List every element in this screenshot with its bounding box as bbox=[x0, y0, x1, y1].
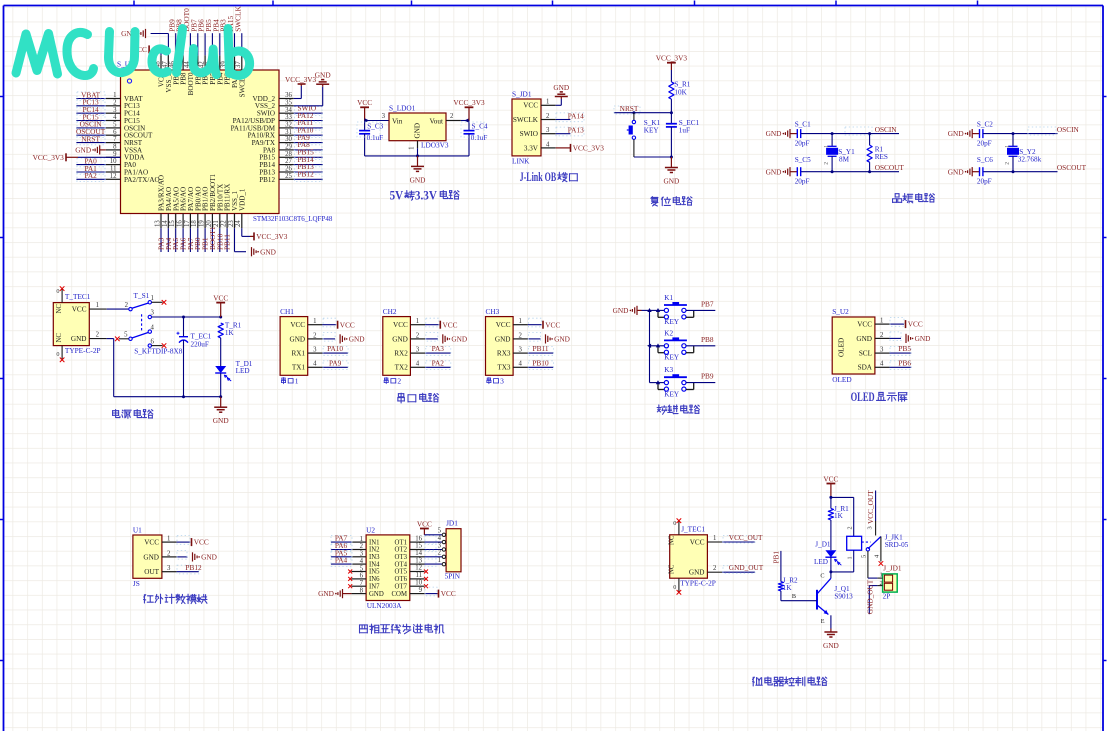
wire JD1 pin4 to VCC_3V3 bbox=[556, 147, 571, 149]
pin 40 PB4 (top) bbox=[211, 19, 224, 85]
wire NRST node bbox=[614, 99, 673, 124]
pin 22 PB11/RX (bottom) bbox=[221, 184, 232, 252]
svg-text:GND: GND bbox=[451, 335, 467, 344]
pin 16 OT1 of U2 bbox=[410, 535, 443, 544]
svg-text:5PIN: 5PIN bbox=[445, 572, 461, 581]
no-connect pin top of J_TEC1 bbox=[673, 518, 681, 534]
svg-text:GND: GND bbox=[143, 553, 159, 561]
svg-text:2P: 2P bbox=[883, 593, 891, 601]
power GND at MCU pin 47 bbox=[121, 29, 145, 38]
svg-text:JD1: JD1 bbox=[446, 519, 458, 528]
pin 16 PA6/AO (bottom) bbox=[177, 187, 188, 252]
pin 4 of CH3 bbox=[513, 361, 528, 368]
pin 1 of CH1 bbox=[308, 318, 323, 325]
svg-text:PA4: PA4 bbox=[335, 556, 348, 565]
svg-text:2: 2 bbox=[1004, 162, 1010, 165]
svg-text:ULN2003A: ULN2003A bbox=[367, 601, 403, 610]
wire pin23 VSS_1 to GND bbox=[235, 228, 247, 252]
wire VCC to LDO Vin bbox=[365, 113, 389, 123]
svg-text:1: 1 bbox=[713, 535, 716, 542]
pin 2 IN2 of U2 bbox=[331, 541, 366, 552]
svg-text:VCC: VCC bbox=[290, 321, 305, 329]
svg-text:TX2: TX2 bbox=[395, 364, 409, 372]
pin 1 of JD1 bbox=[438, 557, 447, 566]
power GND of relay circuit bbox=[823, 629, 839, 651]
svg-text:3.3V: 3.3V bbox=[524, 144, 539, 152]
wire OSCIN net (right xtal) bbox=[983, 125, 1079, 135]
no-connect pin top of T_TEC1 bbox=[56, 286, 64, 302]
svg-text:IN6: IN6 bbox=[369, 576, 380, 583]
wire CH2 pin4 net PA2 bbox=[425, 358, 451, 369]
pin 2 of CH3 bbox=[513, 332, 528, 339]
svg-text:20pF: 20pF bbox=[795, 177, 810, 185]
pin 12 OT5 of U2 bbox=[410, 565, 428, 574]
pin 1 of U1 bbox=[162, 536, 177, 543]
svg-text:4: 4 bbox=[151, 324, 155, 331]
svg-text:VCC: VCC bbox=[72, 305, 87, 313]
connector S_JD1 J-Link body bbox=[512, 90, 541, 166]
svg-text:6: 6 bbox=[151, 338, 155, 345]
pin 48 VCC (top) bbox=[154, 55, 165, 87]
wire pin35 VSS_2 to GND bbox=[294, 87, 323, 106]
svg-text:VCC: VCC bbox=[357, 98, 372, 107]
wire J_TEC1 pin1 net VCC_OUT bbox=[707, 533, 763, 543]
wire CH1 pin3 net PA10 bbox=[322, 344, 348, 355]
pin 39 PB3 (top) bbox=[219, 19, 232, 85]
resistor J_R1 1K bbox=[828, 505, 849, 520]
svg-text:OSCOUT: OSCOUT bbox=[1057, 163, 1087, 172]
wire CH3 pin1 to VCC bbox=[528, 318, 542, 327]
svg-text:K3: K3 bbox=[664, 366, 673, 374]
svg-text:S_C6: S_C6 bbox=[977, 156, 993, 164]
power VCC_3V3 at MCU pin 24 bbox=[254, 232, 288, 241]
power VCC at JD1 pin5 bbox=[417, 519, 432, 528]
wire LDO Vout bbox=[446, 113, 469, 123]
transistor J_Q1 S9013 bbox=[817, 572, 853, 629]
svg-text:GND: GND bbox=[948, 167, 964, 176]
svg-text:2: 2 bbox=[96, 331, 100, 338]
svg-text:C: C bbox=[820, 573, 824, 580]
power VCC at U1 bbox=[192, 538, 209, 547]
title stepper motor circuit bbox=[360, 624, 444, 634]
svg-text:1: 1 bbox=[519, 318, 522, 325]
pin 7 IN7 of U2 bbox=[348, 580, 366, 588]
svg-text:31: 31 bbox=[285, 129, 292, 136]
svg-text:20pF: 20pF bbox=[795, 140, 810, 148]
svg-text:OUT: OUT bbox=[144, 568, 159, 576]
svg-text:S_C2: S_C2 bbox=[977, 120, 993, 128]
power GND at MCU pin 35 bbox=[315, 71, 331, 87]
svg-text:37: 37 bbox=[235, 61, 242, 68]
svg-text:5: 5 bbox=[113, 122, 117, 129]
svg-text:0.1uF: 0.1uF bbox=[471, 134, 488, 142]
svg-text:GND: GND bbox=[201, 553, 217, 562]
svg-text:3: 3 bbox=[880, 347, 884, 354]
svg-text:GND: GND bbox=[554, 335, 570, 344]
pin 4 of JD1 bbox=[438, 535, 447, 544]
wire pin36 VDD_2 to VCC_3V3 bbox=[294, 86, 302, 99]
svg-text:VCC: VCC bbox=[213, 293, 228, 302]
resistor T_R1 1K bbox=[218, 321, 242, 338]
pin 18 PB0/AO (bottom) bbox=[191, 187, 202, 252]
driver U2 ULN2003A body bbox=[366, 525, 410, 610]
svg-text:VCC_3V3: VCC_3V3 bbox=[573, 144, 605, 153]
svg-text:T_EC1: T_EC1 bbox=[191, 333, 212, 341]
title reset circuit bbox=[651, 197, 692, 206]
svg-text:34: 34 bbox=[285, 107, 292, 114]
svg-text:PB12: PB12 bbox=[185, 563, 202, 572]
svg-text:LDO3V3: LDO3V3 bbox=[421, 141, 449, 150]
svg-text:2: 2 bbox=[880, 580, 883, 587]
svg-text:PA14: PA14 bbox=[568, 111, 584, 120]
power VCC at U2 COM bbox=[439, 589, 456, 598]
module U1 infrared sensor body bbox=[133, 525, 162, 588]
svg-text:3: 3 bbox=[113, 107, 117, 114]
svg-text:IN7: IN7 bbox=[369, 583, 380, 590]
pin 1 IN1 of U2 bbox=[331, 534, 366, 545]
pin 8 GND of U2 bbox=[351, 587, 366, 594]
voltage regulator S_LDO1 LDO3V3 bbox=[389, 104, 449, 150]
wire CH3 pin3 net PB11 bbox=[528, 344, 554, 355]
svg-text:TX1: TX1 bbox=[292, 364, 306, 372]
svg-text:3.3V: 3.3V bbox=[415, 188, 437, 202]
pin 36 VDD_2 (right) bbox=[253, 92, 294, 103]
svg-text:Vin: Vin bbox=[392, 117, 403, 125]
connector J_JD1 2P body bbox=[877, 564, 901, 601]
svg-text:8: 8 bbox=[360, 587, 364, 594]
svg-text:KEY: KEY bbox=[664, 390, 680, 398]
power GND at S_C5 bbox=[766, 167, 798, 176]
power VCC at CH3 bbox=[543, 320, 560, 329]
connector J_TEC1 TYPE-C-2P body bbox=[669, 525, 716, 588]
title serial port circuit bbox=[398, 393, 439, 403]
pin 5 IN5 of U2 bbox=[348, 565, 366, 573]
pin 45 PB8 (top) bbox=[175, 19, 188, 85]
pin 37 SWCLK (top) bbox=[233, 6, 246, 98]
svg-text:PB10: PB10 bbox=[532, 358, 549, 367]
wire K3 to net PB9 bbox=[686, 372, 715, 383]
wire R1 to LED bbox=[830, 520, 832, 550]
svg-text:2: 2 bbox=[438, 550, 442, 557]
capacitor S_C4 0.1uF bbox=[461, 121, 488, 156]
svg-text:GND: GND bbox=[75, 146, 91, 155]
wire pin24 VDD_1 to VCC_3V3 bbox=[242, 228, 254, 236]
svg-text:2: 2 bbox=[360, 543, 364, 550]
capacitor S_C3 0.1uF bbox=[357, 121, 384, 156]
power VCC at MCU pin 48 bbox=[132, 45, 149, 54]
svg-text:KEY: KEY bbox=[644, 126, 660, 134]
wire OLED pin1 to VCC bbox=[890, 318, 904, 327]
power VCC at OLED bbox=[906, 320, 923, 329]
svg-text:GND: GND bbox=[71, 335, 87, 343]
pin 10 PA0 (left) bbox=[76, 156, 136, 169]
power GND at S_C6 bbox=[948, 167, 980, 176]
pin 2 of S_U2 bbox=[875, 332, 890, 339]
connector CH2 serial header body bbox=[383, 307, 411, 376]
svg-text:OT6: OT6 bbox=[395, 576, 408, 583]
capacitor S_EC1 1uF bbox=[666, 119, 700, 159]
svg-text:VCC_OUT: VCC_OUT bbox=[866, 490, 875, 524]
pin 3 of CH2 bbox=[410, 347, 425, 354]
resistor S_R1 10K bbox=[669, 80, 691, 99]
svg-text:VCC: VCC bbox=[545, 320, 560, 329]
svg-text:0: 0 bbox=[56, 351, 59, 358]
no-connect pin bottom of J_TEC1 bbox=[673, 578, 681, 594]
svg-text:S_C3: S_C3 bbox=[367, 123, 383, 131]
wire switch pin3 to VCC node bbox=[152, 316, 223, 319]
svg-text:GND: GND bbox=[410, 175, 426, 184]
pin 12 PA2/TX/AO (left) bbox=[76, 171, 159, 184]
power GND at S_C1 bbox=[766, 129, 798, 138]
connector CH1 serial header body bbox=[280, 307, 308, 376]
label serial port CH3 bbox=[487, 376, 504, 385]
title 5V to 3.3V circuit bbox=[390, 188, 459, 202]
wire J_TEC1 pin2 net GND_OUT bbox=[707, 563, 763, 573]
svg-text:VCC: VCC bbox=[194, 538, 209, 547]
relay coil J_JK1 bbox=[829, 526, 861, 573]
svg-text:J_D1: J_D1 bbox=[815, 540, 831, 548]
svg-text:13: 13 bbox=[154, 220, 161, 227]
wire OLED pin3 net PB5 bbox=[890, 344, 912, 355]
svg-text:PA10: PA10 bbox=[327, 344, 343, 353]
title power circuit bbox=[113, 410, 153, 419]
svg-text:220uF: 220uF bbox=[191, 341, 209, 349]
svg-text:VCC_3V3: VCC_3V3 bbox=[256, 232, 288, 241]
svg-text:OSCIN: OSCIN bbox=[875, 125, 898, 134]
pin 7 NRST (left) bbox=[76, 134, 142, 147]
no-connect pin bottom of T_TEC1 bbox=[56, 346, 64, 363]
svg-text:LED: LED bbox=[236, 367, 250, 375]
pin 4 of CH2 bbox=[410, 361, 425, 368]
svg-text:S_C4: S_C4 bbox=[472, 123, 488, 131]
designator S_U1 bbox=[117, 60, 134, 69]
svg-text:OLED: OLED bbox=[837, 338, 845, 357]
wire VCC to JD1 pin5 bbox=[424, 529, 442, 535]
svg-text:27: 27 bbox=[285, 158, 292, 165]
pin 13 PA3/RX/AO (bottom) bbox=[154, 175, 165, 252]
svg-text:9: 9 bbox=[419, 587, 423, 594]
pin 2 of CH2 bbox=[410, 332, 425, 339]
power GND at U2 bbox=[318, 589, 342, 598]
pin 27 PB14 (right) bbox=[259, 155, 322, 169]
power VCC at CH2 bbox=[440, 320, 457, 329]
svg-text:14: 14 bbox=[162, 220, 169, 227]
title crystal circuit bbox=[893, 194, 935, 203]
svg-text:2: 2 bbox=[846, 526, 853, 529]
svg-text:32: 32 bbox=[285, 122, 292, 129]
svg-text:NC: NC bbox=[669, 535, 676, 545]
pin 41 PB5 (top) bbox=[204, 19, 217, 85]
power VCC_3V3 at MCU pin 9 VDDA bbox=[33, 153, 121, 162]
svg-text:VCC: VCC bbox=[857, 321, 872, 329]
connector T_TEC1 TYPE-C-2P body bbox=[53, 292, 100, 355]
pin 21 PB10/TX (bottom) bbox=[213, 184, 224, 252]
pin 29 PA8 (right) bbox=[263, 140, 323, 154]
resistor R1 RES bbox=[867, 134, 888, 172]
power VCC_3V3 at JD1 pin4 bbox=[571, 144, 605, 153]
svg-text:0: 0 bbox=[56, 288, 59, 295]
MCUclub logo bbox=[16, 29, 250, 76]
svg-text:VDD_1: VDD_1 bbox=[238, 188, 246, 211]
title relay control circuit bbox=[753, 677, 827, 686]
svg-text:11: 11 bbox=[415, 572, 422, 579]
svg-text:B: B bbox=[792, 593, 796, 600]
wire GND net to pin 47 bbox=[151, 34, 169, 56]
svg-text:NRST: NRST bbox=[81, 134, 100, 143]
wire U2 pin8 to GND bbox=[343, 593, 352, 595]
svg-text:S_LDO1: S_LDO1 bbox=[389, 104, 416, 113]
wire CH1 pin4 net PA9 bbox=[322, 358, 348, 369]
wire JD1 pin2 net GND_OUT bbox=[865, 579, 877, 614]
pin 31 PA10/RX (right) bbox=[248, 125, 323, 139]
svg-text:4: 4 bbox=[360, 558, 364, 565]
svg-text:22: 22 bbox=[221, 220, 228, 227]
power VCC at CH1 bbox=[338, 320, 355, 329]
svg-text:2: 2 bbox=[416, 332, 420, 339]
pin 5 of JD1 bbox=[438, 528, 447, 537]
connector JD1 5PIN body bbox=[445, 519, 461, 581]
svg-text:PA2: PA2 bbox=[84, 171, 97, 180]
svg-text:GND: GND bbox=[689, 569, 705, 577]
svg-text:IN4: IN4 bbox=[369, 561, 380, 568]
svg-text:18: 18 bbox=[191, 220, 198, 227]
svg-text:GND: GND bbox=[823, 641, 839, 650]
svg-text:SWIO: SWIO bbox=[520, 130, 538, 138]
svg-text:1: 1 bbox=[113, 92, 116, 99]
svg-text:S_R1: S_R1 bbox=[674, 80, 690, 88]
svg-text:1: 1 bbox=[167, 536, 170, 543]
svg-text:19: 19 bbox=[199, 220, 206, 227]
power GND at U1 bbox=[193, 552, 217, 561]
pin 2 of U1 bbox=[162, 550, 177, 557]
svg-text:STM32F103C8T6_LQFP48: STM32F103C8T6_LQFP48 bbox=[253, 215, 333, 223]
title button circuit bbox=[657, 405, 699, 414]
svg-text:10: 10 bbox=[110, 158, 117, 165]
svg-text:17: 17 bbox=[184, 220, 191, 227]
pin 1 of S_JD1 bbox=[541, 99, 556, 106]
wire button GND trunk bbox=[642, 308, 652, 383]
svg-text:13: 13 bbox=[415, 557, 422, 564]
pin 26 PB13 (right) bbox=[259, 162, 322, 176]
svg-text:14: 14 bbox=[415, 550, 422, 557]
svg-text:VCC: VCC bbox=[823, 474, 838, 483]
pin 28 PB15 (right) bbox=[259, 148, 322, 162]
svg-text:CH2: CH2 bbox=[383, 307, 397, 316]
capacitor S_C2 20pF bbox=[977, 120, 993, 147]
svg-text:Vout: Vout bbox=[430, 117, 443, 125]
wire JD1 pin2 net PA14 bbox=[556, 111, 584, 121]
pin 1 VBAT (left) bbox=[76, 90, 143, 103]
svg-text:2: 2 bbox=[713, 565, 717, 572]
svg-text:2: 2 bbox=[546, 113, 550, 120]
wire relay pin5 to JD1 pin1 bbox=[868, 577, 878, 579]
LED J_D1 bbox=[814, 540, 841, 572]
wire TEC1 pin1 to switch pin2 bbox=[89, 302, 128, 309]
microcontroller U1 STM32F103C8T6 body bbox=[121, 70, 280, 214]
power GND at CH3 bbox=[546, 334, 570, 343]
svg-text:GND: GND bbox=[290, 335, 306, 343]
pushbutton K3 KEY bbox=[650, 366, 694, 398]
svg-text:SWCLK: SWCLK bbox=[233, 6, 242, 32]
svg-text:GND: GND bbox=[766, 129, 782, 138]
label serial port CH1 bbox=[281, 376, 298, 385]
svg-text:OSCIN: OSCIN bbox=[1057, 125, 1080, 134]
svg-text:3: 3 bbox=[438, 542, 442, 549]
svg-text:TYPE-C-2P: TYPE-C-2P bbox=[65, 346, 101, 355]
svg-text:VCC_3V3: VCC_3V3 bbox=[453, 98, 485, 107]
svg-text:SDA: SDA bbox=[858, 364, 873, 372]
pin 30 PA9/TX (right) bbox=[252, 133, 323, 147]
svg-text:3: 3 bbox=[313, 347, 317, 354]
power GND of power circuit bbox=[213, 397, 229, 426]
display module S_U2 OLED body bbox=[832, 307, 875, 384]
svg-text:GND: GND bbox=[495, 335, 511, 343]
svg-text:GND: GND bbox=[392, 335, 408, 343]
svg-text:1: 1 bbox=[438, 557, 441, 564]
svg-text:20: 20 bbox=[206, 220, 213, 227]
svg-text:3: 3 bbox=[382, 113, 386, 120]
crystal S_Y1 8M bbox=[824, 134, 856, 172]
svg-text:OSCOUT: OSCOUT bbox=[875, 163, 905, 172]
svg-text:2: 2 bbox=[519, 332, 523, 339]
pin 3 of S_U2 bbox=[875, 347, 890, 354]
svg-text:15: 15 bbox=[169, 220, 176, 227]
pin 3 of U1 bbox=[162, 565, 177, 572]
svg-text:T_TEC1: T_TEC1 bbox=[65, 292, 91, 301]
wire K2 to net PB8 bbox=[686, 335, 715, 346]
svg-text:3: 3 bbox=[167, 565, 171, 572]
pin 1 of CH3 bbox=[513, 318, 528, 325]
wire LDO GND rail bbox=[365, 141, 469, 158]
svg-text:NC: NC bbox=[56, 333, 63, 343]
svg-text:GND: GND bbox=[349, 335, 365, 344]
svg-text:24: 24 bbox=[235, 220, 242, 227]
svg-text:21: 21 bbox=[213, 220, 220, 227]
svg-text:PB7: PB7 bbox=[701, 299, 714, 308]
no-connect wire at switch pin5 bbox=[115, 337, 129, 342]
pin 19 PB1/AO (bottom) bbox=[199, 187, 210, 252]
svg-text:16: 16 bbox=[415, 535, 422, 542]
svg-text:4: 4 bbox=[113, 114, 117, 121]
svg-text:GND: GND bbox=[315, 71, 331, 80]
pin 11 OT6 of U2 bbox=[410, 572, 428, 581]
pin 4 of S_U2 bbox=[875, 361, 890, 368]
svg-text:OT2: OT2 bbox=[395, 547, 408, 554]
svg-text:3: 3 bbox=[360, 551, 364, 558]
svg-text:28: 28 bbox=[285, 151, 292, 158]
title infrared counting module bbox=[144, 594, 207, 603]
wire U1 pin2 to GND bbox=[177, 550, 188, 559]
resistor J_R2 1K on base bbox=[772, 551, 818, 601]
svg-text:GND: GND bbox=[414, 123, 422, 139]
svg-text:47: 47 bbox=[162, 61, 169, 68]
pin 5 OSCIN (left) bbox=[76, 120, 145, 133]
svg-text:KEY: KEY bbox=[664, 318, 680, 326]
svg-text:GND: GND bbox=[766, 167, 782, 176]
wire U2 pin9 COM to VCC bbox=[425, 587, 439, 596]
svg-text:33: 33 bbox=[285, 114, 292, 121]
svg-text:1K: 1K bbox=[834, 512, 844, 520]
svg-text:5: 5 bbox=[438, 528, 442, 535]
wire VCC net to pin 48 bbox=[155, 49, 161, 55]
pin 38 PA15 (top) bbox=[226, 15, 239, 88]
pin 15 OT2 of U2 bbox=[410, 543, 443, 552]
svg-text:OT1: OT1 bbox=[395, 539, 407, 546]
svg-text:15: 15 bbox=[415, 543, 422, 550]
part number STM32F103C8T6_LQFP48 bbox=[253, 215, 333, 223]
power GND at CH2 bbox=[443, 334, 467, 343]
pin 44 BOOT0 (top) bbox=[182, 8, 195, 95]
